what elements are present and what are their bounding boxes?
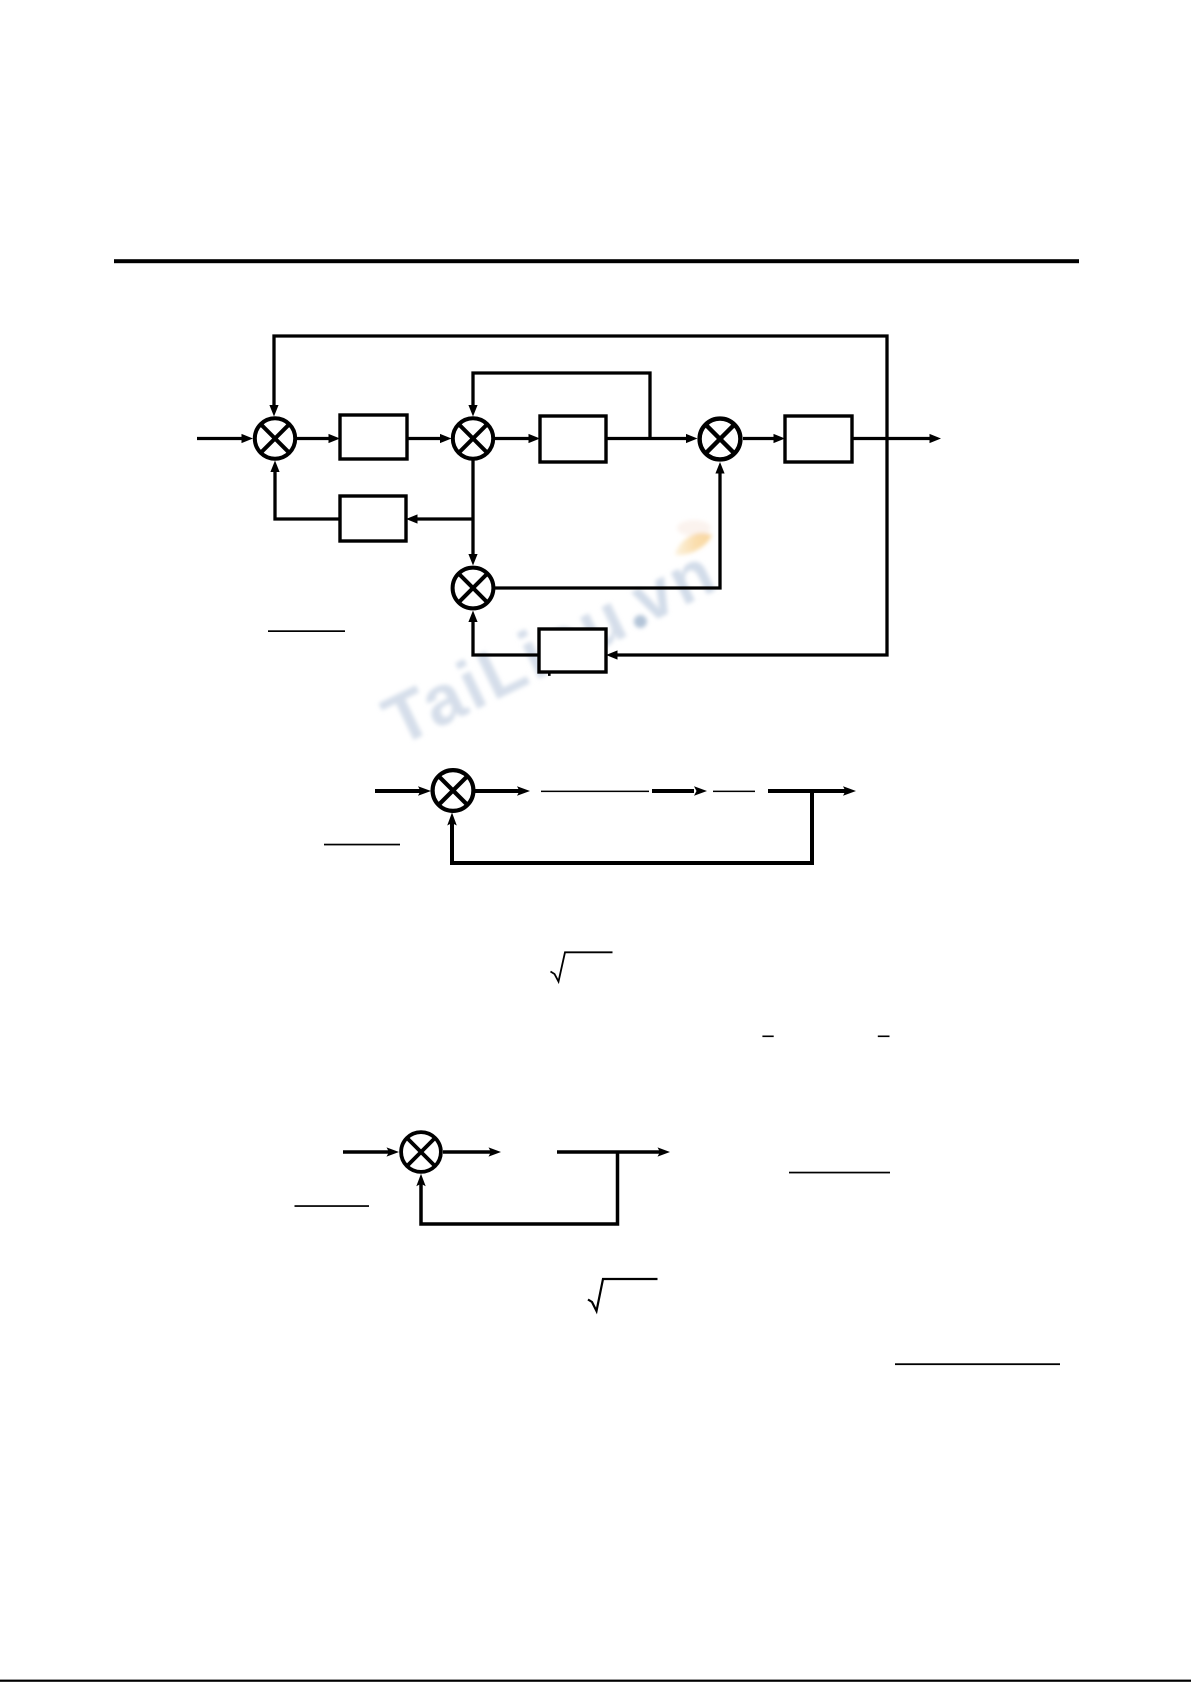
arrowhead into S2 top xyxy=(468,405,477,417)
arrowhead S6 out xyxy=(489,1147,502,1156)
arrowhead into S1 xyxy=(242,434,254,443)
wire: S6 out xyxy=(443,1150,492,1154)
wire: S5 out xyxy=(475,789,521,793)
arrowhead into S5 xyxy=(418,786,431,796)
fraction bar d3 right xyxy=(789,1172,890,1174)
block G3 xyxy=(785,416,852,462)
arrowhead into S3 bottom xyxy=(715,462,724,474)
watermark swoosh xyxy=(675,520,712,555)
fraction bar label d2 xyxy=(324,844,400,846)
arrowhead S5 out xyxy=(517,786,530,796)
wire: out segment xyxy=(768,789,846,793)
minus dash 2 xyxy=(878,1036,890,1038)
arrowhead into G3 xyxy=(774,434,786,443)
wire: pickoff segment d3 xyxy=(557,1150,661,1154)
wire: input to S6 xyxy=(343,1150,390,1154)
wire: G2 to S3 xyxy=(606,437,689,440)
wire: feedback loop d3 xyxy=(421,1152,618,1224)
wire: inner feedback over G2 xyxy=(473,373,650,439)
arrowhead into S2 xyxy=(440,434,452,443)
block H1 xyxy=(340,496,406,541)
wire: outer feedback top xyxy=(274,336,887,655)
summing junction S2 xyxy=(453,418,493,458)
arrowhead into S6 xyxy=(387,1147,400,1156)
fraction bar G(s) d2 xyxy=(541,791,649,793)
wire: S2 to G2 xyxy=(495,437,532,440)
wire: S4 to S3 xyxy=(495,471,720,588)
summing junction S6 xyxy=(401,1132,441,1172)
block G2 xyxy=(540,416,606,462)
arrowhead into H2 xyxy=(606,650,618,659)
arrowhead into S3 xyxy=(686,434,698,443)
wire: branch to H1 xyxy=(416,517,474,520)
block G1 xyxy=(340,415,407,459)
top rule xyxy=(114,259,1079,263)
radical sign 2 xyxy=(588,1279,658,1311)
watermark TaiLieu.vn xyxy=(371,532,729,760)
fraction bar bottom xyxy=(895,1363,1060,1365)
arrowhead output d3 xyxy=(658,1147,671,1156)
wire: S3 to G3 xyxy=(743,437,777,440)
radical sign 1 xyxy=(551,952,613,981)
wire: H1 to S1 xyxy=(275,469,340,519)
arrowhead into S4 top xyxy=(468,554,477,566)
wire: input to S5 xyxy=(375,789,421,793)
summing junction S5 xyxy=(433,770,474,811)
wire: S2 down to S4 xyxy=(471,460,474,557)
dot under H2 xyxy=(548,673,551,676)
wire: mid segment xyxy=(652,789,694,793)
arrowhead into S5 bottom xyxy=(447,813,457,826)
summing junction S3 xyxy=(700,419,741,460)
wire: input to S1 xyxy=(197,437,243,440)
block H2 xyxy=(539,629,606,672)
wire: H2 to S4 xyxy=(473,620,539,656)
arrowhead mid d2 xyxy=(694,786,707,796)
wire: feedback loop d2 xyxy=(452,791,812,863)
wire: S1 to G1 xyxy=(297,437,332,440)
arrowhead into S4 bottom xyxy=(468,611,477,623)
summing junction S1 xyxy=(255,418,295,458)
wire: G1 to S2 xyxy=(407,437,443,440)
fraction bar label d3 left xyxy=(295,1205,370,1207)
footer rule xyxy=(0,1680,1191,1682)
arrowhead into S1 bottom xyxy=(270,461,279,473)
fraction bar H(s) d2 xyxy=(713,791,755,793)
arrowhead into G1 xyxy=(329,434,341,443)
arrowhead into S6 bottom xyxy=(416,1174,425,1187)
arrowhead output 1 xyxy=(930,434,942,443)
minus dash 1 xyxy=(762,1036,773,1038)
arrowhead into G2 xyxy=(529,434,541,443)
summing junction S4 xyxy=(453,568,494,609)
arrowhead into H1 xyxy=(406,514,418,523)
wire: G3 to output xyxy=(852,437,932,440)
arrowhead output d2 xyxy=(843,786,856,796)
arrowhead into S1 top xyxy=(269,405,278,417)
fraction bar label near S4 xyxy=(268,630,345,632)
